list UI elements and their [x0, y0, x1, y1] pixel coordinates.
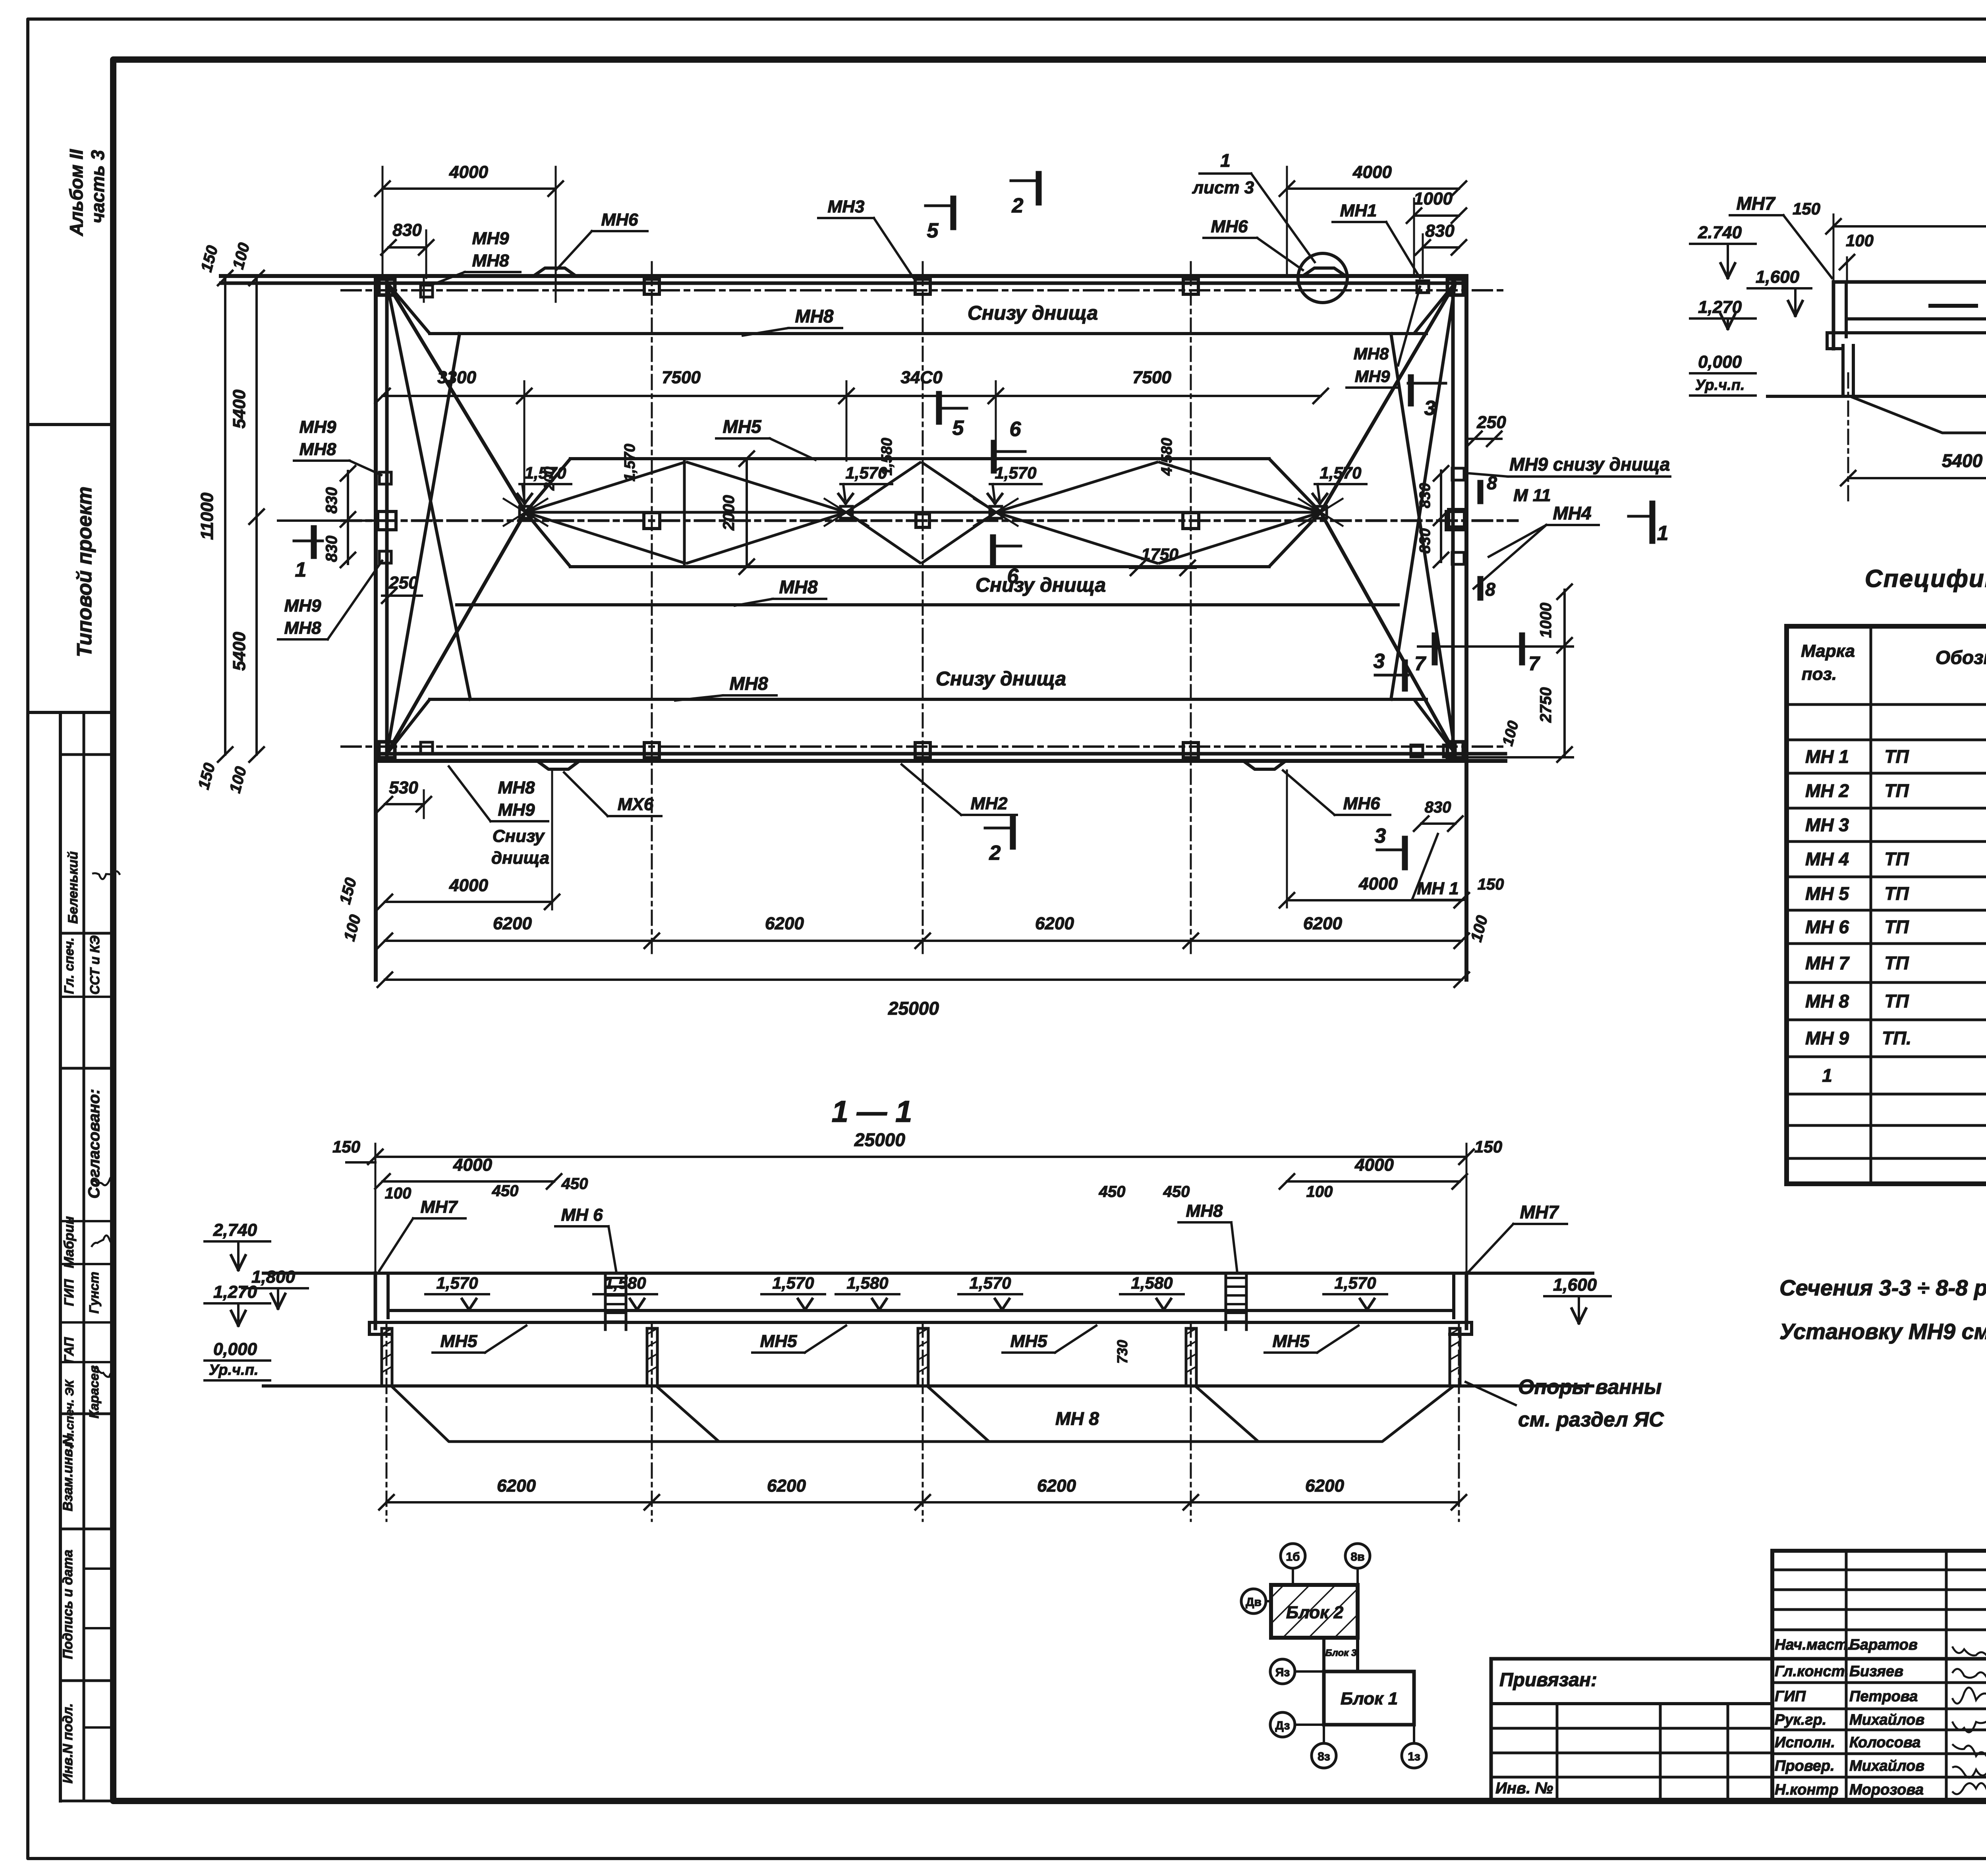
svg-text:1: 1: [295, 558, 307, 581]
svg-text:МН6: МН6: [601, 210, 638, 230]
svg-text:1,580: 1,580: [846, 1274, 888, 1292]
svg-text:Бизяев: Бизяев: [1849, 1663, 1903, 1680]
svg-text:530: 530: [389, 778, 418, 797]
svg-text:МН8: МН8: [284, 618, 321, 638]
svg-text:Морозова: Морозова: [1849, 1781, 1924, 1798]
svg-text:МН 6: МН 6: [1805, 917, 1849, 937]
svg-text:ТП: ТП: [1884, 849, 1909, 869]
svg-text:МН 9: МН 9: [1805, 1028, 1849, 1048]
svg-text:4000: 4000: [1352, 162, 1392, 182]
svg-text:100: 100: [1306, 1183, 1333, 1200]
svg-text:МН 1: МН 1: [1417, 879, 1459, 898]
svg-text:Дв: Дв: [1246, 1596, 1262, 1609]
svg-text:830: 830: [392, 220, 422, 240]
svg-text:150: 150: [1478, 876, 1504, 893]
svg-text:450: 450: [561, 1175, 588, 1193]
svg-text:150: 150: [1474, 1137, 1502, 1156]
svg-text:Ур.ч.п.: Ур.ч.п.: [209, 1362, 258, 1378]
svg-text:МН 6: МН 6: [561, 1205, 603, 1225]
svg-text:Рук.гр.: Рук.гр.: [1775, 1712, 1826, 1728]
svg-text:1750: 1750: [1141, 545, 1178, 564]
svg-text:1,570: 1,570: [1334, 1274, 1376, 1292]
svg-text:5400: 5400: [230, 632, 249, 671]
svg-text:1,570: 1,570: [436, 1274, 478, 1292]
svg-text:830: 830: [1425, 799, 1451, 816]
svg-text:3300: 3300: [437, 368, 476, 387]
svg-text:100: 100: [385, 1185, 411, 1202]
svg-text:1б: 1б: [1286, 1550, 1300, 1563]
svg-text:25000: 25000: [888, 998, 939, 1019]
svg-text:7: 7: [1414, 652, 1426, 675]
svg-text:830: 830: [1417, 528, 1433, 553]
svg-text:МН7: МН7: [1520, 1202, 1559, 1222]
svg-text:250: 250: [388, 573, 418, 593]
svg-text:6: 6: [1007, 565, 1019, 588]
svg-text:3: 3: [1375, 824, 1386, 847]
svg-text:1з: 1з: [1408, 1750, 1420, 1763]
svg-text:Инв. №: Инв. №: [1495, 1779, 1553, 1797]
svg-text:0,000: 0,000: [213, 1339, 257, 1359]
svg-text:Гл.конст.: Гл.конст.: [1775, 1663, 1849, 1680]
svg-text:МН9 снизу днища: МН9 снизу днища: [1509, 454, 1670, 475]
svg-text:Блок 3: Блок 3: [1325, 1648, 1357, 1658]
svg-text:6200: 6200: [1035, 914, 1074, 933]
svg-text:1,600: 1,600: [1553, 1275, 1597, 1295]
svg-text:1,570: 1,570: [1319, 463, 1361, 482]
svg-text:МН8: МН8: [498, 778, 535, 797]
svg-text:ГАП: ГАП: [62, 1337, 76, 1363]
svg-text:8з: 8з: [1318, 1750, 1330, 1763]
svg-text:Провер.: Провер.: [1775, 1758, 1835, 1774]
svg-text:5: 5: [952, 417, 964, 440]
svg-text:1,570: 1,570: [772, 1274, 814, 1292]
svg-text:МН5: МН5: [760, 1332, 797, 1351]
svg-text:поз.: поз.: [1802, 664, 1837, 684]
svg-text:34C0: 34C0: [900, 368, 943, 387]
svg-text:4000: 4000: [449, 162, 488, 182]
svg-text:2000: 2000: [720, 495, 738, 531]
svg-text:днища: днища: [491, 848, 549, 868]
svg-text:1 — 1: 1 — 1: [832, 1095, 912, 1129]
svg-text:МН 2: МН 2: [1805, 780, 1849, 801]
svg-text:МН1: МН1: [1340, 201, 1377, 220]
svg-text:Ур.ч.п.: Ур.ч.п.: [1695, 377, 1745, 394]
svg-text:Снизу днища: Снизу днища: [976, 574, 1106, 596]
svg-text:5400: 5400: [230, 390, 249, 428]
svg-text:Михайлов: Михайлов: [1849, 1712, 1924, 1728]
svg-text:Установку МН9 см. сечение 8: Установку МН9 см. сечение 8-8 лист 3.: [1779, 1319, 1986, 1344]
svg-text:МН7: МН7: [421, 1197, 458, 1217]
svg-text:Карасев: Карасев: [87, 1365, 101, 1419]
svg-text:МН8: МН8: [1354, 344, 1389, 363]
svg-text:ССТ и КЭ: ССТ и КЭ: [87, 935, 102, 994]
svg-text:МН6: МН6: [1343, 794, 1380, 813]
svg-text:МН8: МН8: [729, 673, 768, 694]
svg-text:Баратов: Баратов: [1849, 1637, 1918, 1653]
svg-text:7: 7: [1528, 652, 1540, 675]
svg-text:МН6: МН6: [1211, 217, 1248, 236]
svg-text:МХ6: МХ6: [618, 795, 654, 814]
svg-text:Дз: Дз: [1275, 1719, 1290, 1732]
svg-text:3: 3: [1424, 397, 1436, 420]
svg-text:Блок 1: Блок 1: [1341, 1689, 1398, 1708]
svg-text:1: 1: [1657, 522, 1669, 545]
svg-text:М 11: М 11: [1513, 486, 1551, 505]
svg-text:2750: 2750: [1537, 687, 1555, 723]
svg-text:Привязан:: Привязан:: [1499, 1669, 1597, 1691]
svg-text:Опоры ванны: Опоры ванны: [1518, 1376, 1661, 1399]
svg-text:ТП: ТП: [1884, 883, 1909, 904]
svg-text:Снизу днища: Снизу днища: [936, 668, 1066, 690]
svg-text:Колосова: Колосова: [1849, 1734, 1920, 1751]
svg-text:4,580: 4,580: [1159, 438, 1175, 476]
svg-text:МН7: МН7: [1736, 193, 1776, 214]
svg-text:МН9: МН9: [498, 800, 535, 820]
svg-text:МН8: МН8: [472, 251, 509, 270]
svg-text:Гунст: Гунст: [87, 1272, 101, 1313]
svg-text:Беленький: Беленький: [66, 851, 81, 924]
svg-text:8: 8: [1487, 473, 1497, 493]
svg-text:1,580: 1,580: [1131, 1274, 1173, 1292]
svg-text:Подпись и дата: Подпись и дата: [60, 1550, 75, 1659]
svg-text:Нач.маст.: Нач.маст.: [1775, 1637, 1852, 1653]
svg-text:ТП.: ТП.: [1882, 1028, 1911, 1048]
svg-text:2: 2: [1012, 194, 1024, 217]
svg-text:Типовой проект: Типовой проект: [73, 486, 96, 657]
svg-text:МН 3: МН 3: [1805, 814, 1849, 835]
svg-text:МН9: МН9: [472, 229, 509, 248]
svg-text:1,600: 1,600: [1756, 267, 1800, 287]
svg-text:7500: 7500: [1132, 368, 1171, 387]
svg-text:450: 450: [1099, 1183, 1126, 1200]
svg-text:ТП: ТП: [1884, 746, 1909, 767]
svg-text:Снизу: Снизу: [493, 826, 545, 846]
svg-text:ТП: ТП: [1884, 953, 1909, 973]
svg-text:200: 200: [541, 467, 557, 491]
svg-text:Гл. спеч.: Гл. спеч.: [62, 938, 76, 994]
svg-text:ГИП: ГИП: [62, 1279, 76, 1306]
svg-text:Инв.N подл.: Инв.N подл.: [60, 1703, 75, 1783]
svg-text:Н.контр: Н.контр: [1775, 1781, 1838, 1798]
svg-text:11000: 11000: [197, 492, 217, 540]
svg-text:Исполн.: Исполн.: [1775, 1734, 1835, 1751]
svg-text:МН 5: МН 5: [1805, 883, 1849, 904]
svg-text:8: 8: [1485, 579, 1495, 600]
svg-text:лист 3: лист 3: [1192, 178, 1254, 197]
svg-text:МН9: МН9: [1355, 367, 1390, 386]
svg-text:830: 830: [323, 487, 340, 514]
svg-text:4000: 4000: [1358, 874, 1398, 894]
svg-text:2.740: 2.740: [1698, 223, 1742, 242]
svg-text:6200: 6200: [1303, 914, 1342, 933]
svg-text:1,570: 1,570: [622, 444, 638, 481]
svg-text:4000: 4000: [453, 1155, 492, 1175]
svg-text:МН5: МН5: [1010, 1332, 1047, 1351]
svg-text:730: 730: [1114, 1340, 1130, 1364]
svg-text:МН8: МН8: [299, 440, 336, 459]
svg-text:5: 5: [927, 219, 939, 242]
svg-text:1,270: 1,270: [213, 1282, 257, 1302]
svg-text:МН2: МН2: [971, 794, 1008, 813]
svg-text:МН9: МН9: [299, 417, 336, 437]
svg-text:МН4: МН4: [1553, 503, 1591, 523]
svg-text:830: 830: [323, 536, 340, 562]
svg-text:6200: 6200: [1037, 1476, 1076, 1496]
svg-text:см. раздел ЯС: см. раздел ЯС: [1518, 1408, 1664, 1431]
svg-text:450: 450: [492, 1182, 519, 1200]
svg-text:МН 1: МН 1: [1805, 746, 1849, 767]
svg-text:150: 150: [332, 1137, 360, 1156]
svg-text:Яз: Яз: [1275, 1666, 1290, 1679]
svg-text:2,740: 2,740: [213, 1220, 257, 1240]
svg-text:Марка: Марка: [1801, 641, 1855, 661]
svg-text:6200: 6200: [1305, 1476, 1344, 1496]
svg-text:часть 3: часть 3: [87, 150, 108, 223]
svg-text:4000: 4000: [449, 876, 488, 895]
svg-text:7500: 7500: [662, 368, 701, 387]
svg-text:1,580: 1,580: [604, 1274, 646, 1292]
svg-text:ТП: ТП: [1884, 780, 1909, 801]
svg-text:4000: 4000: [1354, 1155, 1394, 1175]
svg-text:Сечения 3-3 ÷ 8-8 разработан: Сечения 3-3 ÷ 8-8 разработаны на листе 3…: [1779, 1275, 1986, 1300]
svg-text:Взам.инв.N: Взам.инв.N: [60, 1435, 75, 1511]
svg-text:6200: 6200: [767, 1476, 806, 1496]
svg-text:МН9: МН9: [284, 596, 321, 616]
svg-text:830: 830: [1417, 483, 1433, 508]
svg-text:0,000: 0,000: [1698, 352, 1742, 372]
svg-text:6: 6: [1010, 418, 1022, 441]
svg-text:2: 2: [989, 841, 1001, 865]
svg-text:Петрова: Петрова: [1849, 1688, 1918, 1705]
svg-text:Блок 2: Блок 2: [1286, 1603, 1344, 1622]
svg-text:6200: 6200: [497, 1476, 536, 1496]
svg-text:Спецификация закладных детал: Спецификация закладных деталей ванны: [1865, 565, 1986, 593]
svg-text:МН8: МН8: [795, 306, 834, 326]
svg-text:1,570: 1,570: [995, 463, 1036, 482]
svg-text:830: 830: [1425, 221, 1455, 241]
svg-text:Обозначение: Обозначение: [1936, 647, 1986, 668]
svg-text:1: 1: [1220, 150, 1231, 171]
svg-text:МН 4: МН 4: [1805, 849, 1849, 869]
svg-text:1,800: 1,800: [251, 1267, 296, 1287]
svg-text:1000: 1000: [1537, 603, 1555, 638]
svg-text:МН 8: МН 8: [1805, 991, 1849, 1011]
svg-text:Мабрин: Мабрин: [62, 1216, 77, 1268]
svg-text:МН8: МН8: [779, 577, 818, 597]
svg-text:МН8: МН8: [1186, 1201, 1223, 1221]
svg-text:Альбом II: Альбом II: [66, 149, 87, 236]
svg-text:1,580: 1,580: [879, 438, 895, 475]
svg-text:ТП: ТП: [1884, 917, 1909, 937]
svg-text:1,570: 1,570: [969, 1274, 1011, 1292]
svg-text:1000: 1000: [1414, 189, 1453, 208]
svg-text:МН5: МН5: [440, 1332, 477, 1351]
svg-text:МН5: МН5: [1273, 1332, 1310, 1351]
svg-text:250: 250: [1476, 413, 1506, 432]
svg-text:1: 1: [1822, 1065, 1832, 1086]
svg-text:Михайлов: Михайлов: [1849, 1758, 1924, 1774]
svg-text:6200: 6200: [765, 914, 804, 933]
svg-text:25000: 25000: [854, 1129, 905, 1150]
svg-text:5400: 5400: [1942, 450, 1983, 471]
svg-text:150: 150: [1793, 199, 1820, 218]
svg-text:6200: 6200: [493, 914, 532, 933]
svg-text:МН3: МН3: [828, 197, 865, 216]
svg-text:МН 8: МН 8: [1055, 1408, 1099, 1429]
svg-text:Снизу днища: Снизу днища: [968, 302, 1098, 324]
svg-text:МН5: МН5: [723, 416, 762, 437]
svg-text:3: 3: [1374, 650, 1385, 673]
svg-text:8в: 8в: [1350, 1550, 1364, 1563]
svg-text:ГИП: ГИП: [1775, 1688, 1806, 1705]
svg-text:МН 7: МН 7: [1805, 953, 1850, 973]
svg-text:100: 100: [1846, 231, 1874, 250]
svg-text:450: 450: [1163, 1183, 1190, 1200]
svg-text:ТП: ТП: [1884, 991, 1909, 1011]
